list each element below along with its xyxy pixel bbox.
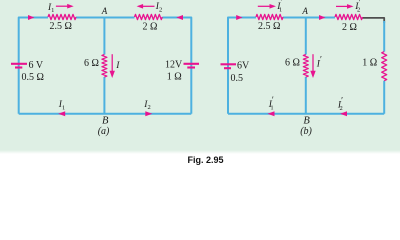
svg-text:(a): (a)	[98, 126, 110, 137]
svg-text:2 Ω: 2 Ω	[143, 22, 158, 33]
wire: (a) top middle segment	[76, 17, 135, 19]
current arrow I down (a) middle	[110, 54, 121, 78]
svg-text:0.5: 0.5	[231, 73, 244, 84]
current arrow + label I1' (b) bottom	[268, 95, 275, 116]
svg-text:A: A	[101, 6, 108, 16]
svg-text:(b): (b)	[300, 126, 312, 137]
resistor 6 ohm (a)	[102, 55, 107, 78]
wire: (a) bottom	[19, 113, 192, 115]
svg-text:6 V: 6 V	[29, 60, 44, 71]
current arrow on wire (b) top-left	[236, 15, 242, 20]
wire: (b) top-left segment	[228, 18, 256, 114]
resistor 2.5 ohm (b)	[256, 14, 283, 19]
current arrow on wire (b) after A	[319, 15, 326, 20]
wire: (a) middle branch lower	[103, 77, 105, 114]
svg-text:I′2: I′2	[354, 0, 360, 14]
current arrow + label I2 (a) bottom-right	[143, 100, 152, 116]
current label I2 with arrow (a) top	[137, 2, 163, 13]
svg-text:6 Ω: 6 Ω	[285, 58, 300, 69]
wire: (b) top middle segment	[283, 17, 335, 19]
wire: (b) top-right dark segment	[363, 18, 385, 23]
svg-text:B: B	[303, 116, 310, 127]
battery 6V 0.5 ohm (a)	[11, 60, 44, 83]
resistor 2 ohm (b)	[335, 14, 363, 19]
current label I2' with arrow (b) top	[336, 0, 360, 14]
svg-text:0.5 Ω: 0.5 Ω	[22, 72, 44, 83]
svg-text:12V: 12V	[165, 60, 183, 71]
svg-text:I′1: I′1	[276, 0, 282, 14]
battery 6V 0.5 (b)	[221, 61, 251, 85]
current arrow + label I2' (b) bottom	[337, 96, 347, 117]
wire: (b) bottom	[228, 113, 384, 115]
svg-text:A: A	[301, 6, 308, 16]
current arrow + label I1 (a) bottom-left	[58, 100, 65, 116]
svg-text:1 Ω: 1 Ω	[167, 72, 182, 83]
resistor 1 ohm (b)	[382, 52, 387, 81]
current arrow on wire (a) top-right	[176, 15, 183, 20]
svg-text:6V: 6V	[237, 61, 250, 72]
battery 12V 1 ohm (a)	[165, 60, 199, 83]
wire: (b) middle branch upper	[305, 18, 307, 55]
svg-text:2.5 Ω: 2.5 Ω	[50, 21, 72, 32]
current label I1 with arrow (a) top	[47, 3, 74, 14]
wire: (b) right branch	[383, 21, 385, 114]
svg-text:1 Ω: 1 Ω	[362, 58, 377, 69]
wire: (b) middle branch lower	[305, 77, 307, 114]
current label I1' with arrow (b) top	[258, 0, 283, 14]
resistor 2.5 ohm (a)	[48, 14, 76, 19]
svg-text:2.5 Ω: 2.5 Ω	[258, 21, 280, 32]
svg-text:Fig. 2.95: Fig. 2.95	[188, 155, 224, 165]
current arrow on wire (a) top-left	[28, 15, 35, 20]
current arrow I' down (b) middle	[310, 54, 322, 78]
svg-text:2 Ω: 2 Ω	[342, 22, 357, 33]
svg-text:6 Ω: 6 Ω	[84, 58, 99, 69]
resistor 2 ohm (a)	[135, 14, 163, 19]
resistor 6 ohm (b)	[303, 55, 308, 78]
svg-text:B: B	[102, 116, 109, 127]
wire: (a) top-right segment	[162, 18, 191, 114]
wire: (a) top-left segment	[19, 18, 48, 114]
wire: (a) middle branch upper	[103, 18, 105, 55]
background panel	[0, 0, 400, 150]
